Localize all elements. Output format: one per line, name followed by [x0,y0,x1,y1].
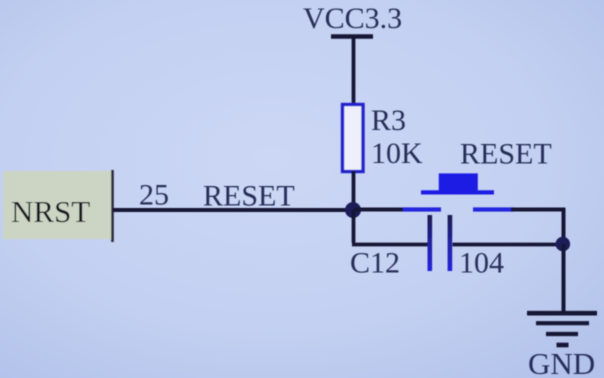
svg-text:NRST: NRST [11,194,90,229]
ground bar 1 [527,311,597,316]
ground bar 2 [536,321,589,325]
node B junction dot [556,237,571,252]
capacitor C12 left plate [428,215,433,271]
switch button cap [439,173,478,191]
wire node A down to C12 left plate [352,210,428,245]
NRST pin edge [111,170,114,242]
svg-text:RESET: RESET [203,180,295,213]
switch left contact wire [354,208,407,212]
svg-text:R3: R3 [371,104,406,137]
wire node B to ground [562,244,566,313]
svg-text:VCC3.3: VCC3.3 [303,2,402,35]
svg-text:10K: 10K [371,137,423,170]
svg-text:104: 104 [459,247,504,280]
capacitor C12 right plate [448,215,453,271]
wire switch to node B [562,208,566,246]
node A junction dot [345,202,361,218]
switch right contact wire [511,208,565,212]
switch right contact blue tip [473,207,514,211]
svg-text:RESET: RESET [460,138,552,171]
wire C12 right plate to node B [453,243,566,247]
wire VCC to R3 [352,37,356,105]
svg-text:C12: C12 [350,247,400,280]
wire R3 to node A [352,171,356,211]
svg-text:25: 25 [139,179,169,212]
switch left contact blue tip [403,207,441,211]
ground bar 4 [557,343,569,348]
wire NRST to node A [113,208,356,212]
svg-text:GND: GND [528,346,595,378]
NRST box [3,171,112,239]
ground bar 3 [546,332,578,336]
switch button bar [421,190,494,194]
resistor R3 [343,105,364,172]
power symbol bar [331,34,373,39]
